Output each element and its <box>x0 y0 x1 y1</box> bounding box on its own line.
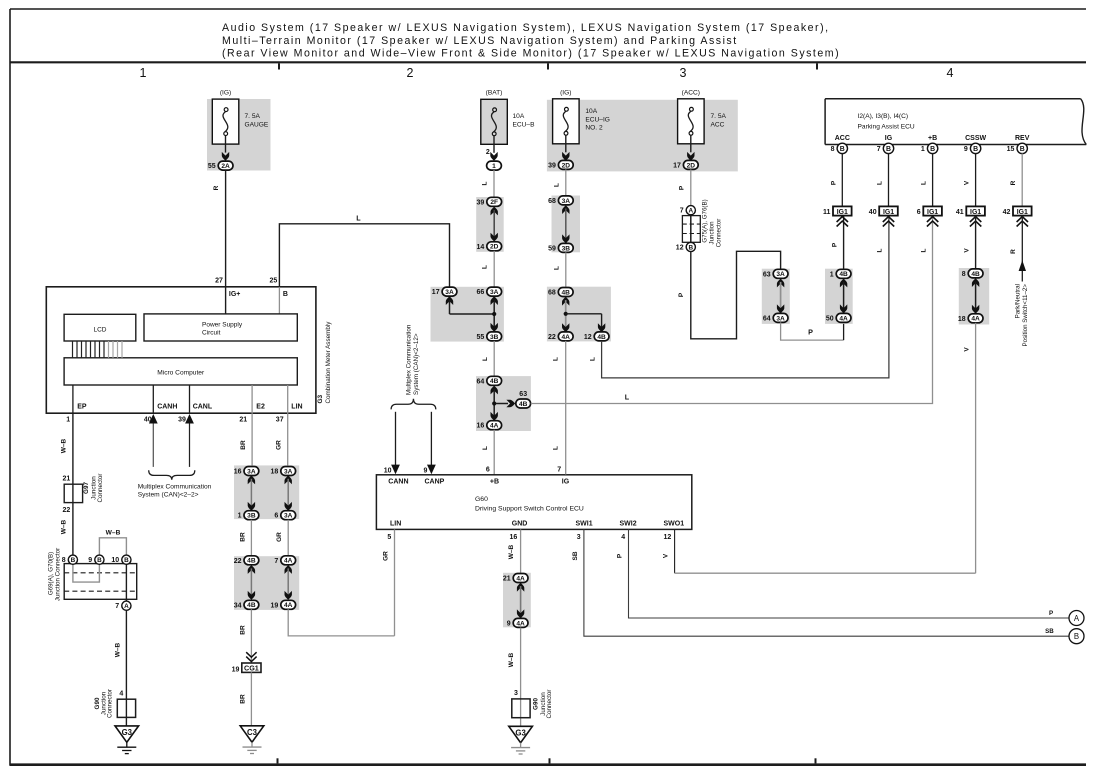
svg-text:41: 41 <box>956 209 964 216</box>
svg-text:CANL: CANL <box>193 404 213 411</box>
svg-text:22: 22 <box>63 507 71 514</box>
svg-text:6: 6 <box>486 466 490 473</box>
svg-text:R: R <box>1010 180 1017 185</box>
svg-text:P: P <box>678 292 685 297</box>
svg-text:4A: 4A <box>516 575 525 582</box>
svg-text:Combination Meter Assembly: Combination Meter Assembly <box>325 321 332 404</box>
svg-text:GR: GR <box>382 551 389 561</box>
svg-text:12: 12 <box>664 534 672 541</box>
svg-text:Parking Assist ECU: Parking Assist ECU <box>858 123 915 130</box>
svg-text:7: 7 <box>274 558 278 565</box>
svg-text:CSSW: CSSW <box>965 135 986 142</box>
svg-text:B: B <box>283 291 288 298</box>
svg-text:LCD: LCD <box>93 327 106 334</box>
svg-text:25: 25 <box>270 277 278 284</box>
svg-text:19: 19 <box>232 666 240 673</box>
svg-text:39: 39 <box>477 199 485 206</box>
svg-text:42: 42 <box>1003 209 1011 216</box>
svg-text:L: L <box>589 357 596 361</box>
svg-text:1: 1 <box>66 417 70 424</box>
svg-text:V: V <box>663 553 670 558</box>
svg-text:A: A <box>124 603 129 610</box>
svg-text:G3: G3 <box>515 729 526 738</box>
svg-text:55: 55 <box>208 163 216 170</box>
svg-text:A: A <box>688 208 693 215</box>
svg-text:17: 17 <box>673 162 681 169</box>
svg-text:17: 17 <box>432 289 440 296</box>
svg-text:P: P <box>831 242 838 247</box>
svg-text:2A: 2A <box>221 163 230 170</box>
svg-text:37: 37 <box>276 417 284 424</box>
svg-text:4B: 4B <box>490 378 499 385</box>
svg-text:15: 15 <box>1007 146 1015 153</box>
svg-text:16: 16 <box>477 423 485 430</box>
svg-text:4A: 4A <box>561 334 570 341</box>
svg-text:10A: 10A <box>585 108 597 115</box>
svg-text:ACC: ACC <box>835 135 850 142</box>
svg-text:2D: 2D <box>490 244 499 251</box>
svg-text:3A: 3A <box>284 468 293 475</box>
svg-text:6: 6 <box>917 209 921 216</box>
svg-text:Park/Neutral: Park/Neutral <box>1015 284 1022 318</box>
svg-text:4B: 4B <box>597 334 606 341</box>
svg-text:3A: 3A <box>562 198 571 205</box>
svg-text:W–B: W–B <box>61 438 68 453</box>
svg-text:(IG): (IG) <box>220 89 231 96</box>
svg-text:68: 68 <box>548 290 556 297</box>
svg-text:4B: 4B <box>839 271 848 278</box>
svg-text:L: L <box>877 181 884 185</box>
svg-text:1: 1 <box>140 66 147 80</box>
svg-text:4A: 4A <box>839 315 848 322</box>
svg-text:BR: BR <box>239 694 246 704</box>
svg-text:IG1: IG1 <box>970 209 981 216</box>
svg-text:E2: E2 <box>256 404 265 411</box>
svg-text:CG1: CG1 <box>244 664 259 673</box>
svg-text:B: B <box>124 557 129 564</box>
svg-text:G60: G60 <box>475 496 488 503</box>
svg-text:12: 12 <box>676 245 684 252</box>
svg-text:B: B <box>886 146 891 153</box>
svg-text:Driving Support Switch Control: Driving Support Switch Control ECU <box>475 506 584 513</box>
svg-text:SB: SB <box>1045 628 1054 635</box>
svg-text:4: 4 <box>947 66 954 80</box>
svg-text:3A: 3A <box>776 271 785 278</box>
svg-text:Connector: Connector <box>106 689 113 718</box>
svg-text:4B: 4B <box>971 271 980 278</box>
svg-text:IG1: IG1 <box>1017 209 1028 216</box>
svg-text:System (CAN)<2–2>: System (CAN)<2–2> <box>138 492 199 499</box>
svg-text:64: 64 <box>477 378 485 385</box>
svg-text:59: 59 <box>548 245 556 252</box>
svg-text:1: 1 <box>492 163 496 170</box>
svg-text:System (CAN)<2–12>: System (CAN)<2–12> <box>413 333 420 395</box>
svg-text:27: 27 <box>215 277 223 284</box>
svg-text:P: P <box>617 553 624 558</box>
svg-text:SWI2: SWI2 <box>620 521 637 528</box>
svg-text:L: L <box>553 446 560 450</box>
svg-text:LIN: LIN <box>291 404 302 411</box>
svg-text:55: 55 <box>477 334 485 341</box>
svg-text:SWO1: SWO1 <box>664 521 685 528</box>
svg-text:L: L <box>482 265 489 269</box>
svg-text:LIN: LIN <box>390 521 401 528</box>
svg-text:L: L <box>482 181 489 185</box>
svg-text:CANH: CANH <box>157 404 177 411</box>
svg-text:Multiplex Communication: Multiplex Communication <box>138 483 212 490</box>
svg-text:(BAT): (BAT) <box>486 89 503 96</box>
svg-text:14: 14 <box>477 244 485 251</box>
svg-text:Micro Computer: Micro Computer <box>157 370 205 377</box>
svg-text:G90: G90 <box>533 698 540 710</box>
svg-text:V: V <box>964 248 971 253</box>
svg-text:IG1: IG1 <box>837 209 848 216</box>
svg-text:10A: 10A <box>513 113 525 120</box>
svg-text:7. 5A: 7. 5A <box>711 113 727 120</box>
svg-text:7: 7 <box>557 466 561 473</box>
svg-text:Connector: Connector <box>546 689 553 718</box>
svg-text:7: 7 <box>680 208 684 215</box>
svg-text:IG+: IG+ <box>229 291 240 298</box>
svg-text:REV: REV <box>1015 135 1030 142</box>
svg-text:8: 8 <box>831 146 835 153</box>
svg-text:9: 9 <box>507 620 511 627</box>
svg-text:Audio System (17 Speaker w/ LE: Audio System (17 Speaker w/ LEXUS Naviga… <box>222 22 830 34</box>
svg-text:66: 66 <box>477 289 485 296</box>
svg-text:9: 9 <box>964 146 968 153</box>
svg-text:B: B <box>688 244 693 251</box>
svg-text:R: R <box>1010 249 1017 254</box>
svg-text:4B: 4B <box>519 401 528 408</box>
svg-text:BR: BR <box>239 532 246 542</box>
svg-text:4: 4 <box>119 690 123 697</box>
svg-text:11: 11 <box>823 209 831 216</box>
svg-text:+B: +B <box>490 478 499 485</box>
svg-text:4A: 4A <box>971 316 980 323</box>
svg-text:2: 2 <box>486 149 490 156</box>
svg-text:64: 64 <box>763 315 771 322</box>
svg-text:7: 7 <box>877 146 881 153</box>
svg-text:1: 1 <box>830 271 834 278</box>
svg-text:68: 68 <box>548 198 556 205</box>
svg-text:40: 40 <box>869 209 877 216</box>
svg-text:(Rear View Monitor and Wide–Vi: (Rear View Monitor and Wide–View Front &… <box>222 47 840 59</box>
svg-text:CANP: CANP <box>425 478 445 485</box>
svg-text:7. 5A: 7. 5A <box>245 113 261 120</box>
svg-text:L: L <box>482 446 489 450</box>
svg-text:2F: 2F <box>490 199 498 206</box>
svg-text:3B: 3B <box>247 513 256 520</box>
svg-text:Junction: Junction <box>709 221 716 245</box>
svg-text:SB: SB <box>572 551 579 560</box>
svg-text:4A: 4A <box>284 602 293 609</box>
svg-text:(ACC): (ACC) <box>682 89 700 96</box>
svg-text:3A: 3A <box>247 468 256 475</box>
svg-text:16: 16 <box>234 469 242 476</box>
svg-text:IG1: IG1 <box>883 209 894 216</box>
svg-text:ECU–B: ECU–B <box>513 121 536 128</box>
svg-text:63: 63 <box>763 271 771 278</box>
svg-text:63: 63 <box>519 391 527 398</box>
svg-text:21: 21 <box>503 576 511 583</box>
svg-text:B: B <box>97 557 102 564</box>
svg-text:BR: BR <box>239 625 246 635</box>
svg-text:10: 10 <box>111 557 119 564</box>
svg-text:L: L <box>356 214 361 223</box>
svg-text:1: 1 <box>238 513 242 520</box>
svg-text:B: B <box>840 146 845 153</box>
svg-text:2D: 2D <box>687 162 696 169</box>
svg-text:SWI1: SWI1 <box>576 521 593 528</box>
svg-text:B: B <box>71 557 76 564</box>
svg-text:ACC: ACC <box>711 121 725 128</box>
svg-text:B: B <box>1020 146 1025 153</box>
svg-text:P: P <box>678 185 685 190</box>
svg-text:Connector: Connector <box>97 473 104 502</box>
svg-text:B: B <box>930 146 935 153</box>
svg-text:(IG): (IG) <box>560 89 571 96</box>
svg-text:22: 22 <box>548 334 556 341</box>
svg-text:W–B: W–B <box>106 529 121 536</box>
svg-text:4B: 4B <box>247 558 256 565</box>
svg-text:L: L <box>877 248 884 252</box>
svg-text:4: 4 <box>621 534 625 541</box>
svg-text:L: L <box>921 248 928 252</box>
svg-text:G3: G3 <box>317 394 324 403</box>
svg-text:3A: 3A <box>490 289 499 296</box>
svg-text:3B: 3B <box>562 245 571 252</box>
svg-text:1: 1 <box>921 146 925 153</box>
svg-text:8: 8 <box>962 271 966 278</box>
svg-text:P: P <box>1049 610 1053 617</box>
svg-text:G69(A), G70(B): G69(A), G70(B) <box>48 552 55 595</box>
svg-text:18: 18 <box>271 469 279 476</box>
svg-text:21: 21 <box>239 417 247 424</box>
svg-text:50: 50 <box>826 315 834 322</box>
svg-text:3: 3 <box>680 66 687 80</box>
svg-text:W–B: W–B <box>114 642 121 657</box>
svg-text:IG: IG <box>562 478 570 485</box>
svg-text:W–B: W–B <box>61 519 68 534</box>
svg-text:NO. 2: NO. 2 <box>585 125 603 132</box>
svg-text:4B: 4B <box>561 289 570 296</box>
svg-text:3A: 3A <box>284 513 293 520</box>
svg-text:V: V <box>964 347 971 352</box>
svg-text:2: 2 <box>407 66 414 80</box>
svg-text:8: 8 <box>62 557 66 564</box>
svg-text:EP: EP <box>77 404 87 411</box>
svg-text:Junction Connector: Junction Connector <box>55 548 62 601</box>
svg-text:4B: 4B <box>247 602 256 609</box>
svg-text:4A: 4A <box>516 620 525 627</box>
svg-text:Position Switch<11–2>: Position Switch<11–2> <box>1022 284 1029 347</box>
svg-text:L: L <box>625 393 630 402</box>
svg-text:P: P <box>808 328 813 337</box>
svg-text:3: 3 <box>514 690 518 697</box>
svg-text:L: L <box>553 183 560 187</box>
svg-text:19: 19 <box>271 602 279 609</box>
svg-text:39: 39 <box>548 162 556 169</box>
svg-text:3A: 3A <box>445 289 454 296</box>
svg-text:W–B: W–B <box>508 544 515 559</box>
svg-text:L: L <box>482 357 489 361</box>
svg-text:Multi–Terrain Monitor (17 Spea: Multi–Terrain Monitor (17 Speaker w/ LEX… <box>222 35 738 47</box>
svg-text:3: 3 <box>577 534 581 541</box>
svg-text:L: L <box>921 181 928 185</box>
svg-text:G75(A), G76(B): G75(A), G76(B) <box>702 199 709 242</box>
svg-text:16: 16 <box>510 534 518 541</box>
svg-text:GR: GR <box>276 440 283 450</box>
svg-text:39: 39 <box>178 417 186 424</box>
svg-text:G97: G97 <box>83 482 90 494</box>
svg-text:Circuit: Circuit <box>202 329 221 336</box>
svg-text:GAUGE: GAUGE <box>245 121 269 128</box>
svg-text:22: 22 <box>234 558 242 565</box>
svg-text:GR: GR <box>276 532 283 542</box>
svg-text:ECU–IG: ECU–IG <box>585 116 610 123</box>
svg-text:BR: BR <box>240 440 247 450</box>
svg-text:V: V <box>964 180 971 185</box>
svg-text:I2(A), I3(B), I4(C): I2(A), I3(B), I4(C) <box>858 113 909 120</box>
svg-text:W–B: W–B <box>508 652 515 667</box>
svg-text:6: 6 <box>274 513 278 520</box>
svg-text:+B: +B <box>928 135 937 142</box>
svg-text:Connector: Connector <box>716 219 723 248</box>
svg-text:9: 9 <box>423 467 427 474</box>
svg-text:L: L <box>553 357 560 361</box>
svg-text:B: B <box>973 146 978 153</box>
svg-text:12: 12 <box>584 334 592 341</box>
svg-text:Power Supply: Power Supply <box>202 321 243 328</box>
svg-text:Multiplex Communication: Multiplex Communication <box>405 324 412 395</box>
svg-text:3B: 3B <box>490 334 499 341</box>
svg-text:A: A <box>1074 614 1080 623</box>
svg-text:7: 7 <box>115 603 119 610</box>
svg-text:IG: IG <box>885 135 893 142</box>
svg-text:CANN: CANN <box>388 478 408 485</box>
svg-text:10: 10 <box>384 467 392 474</box>
svg-text:34: 34 <box>234 602 242 609</box>
svg-text:3A: 3A <box>776 315 785 322</box>
svg-text:5: 5 <box>387 534 391 541</box>
svg-text:GND: GND <box>512 521 528 528</box>
svg-text:4A: 4A <box>490 423 499 430</box>
svg-text:C3: C3 <box>247 728 258 737</box>
svg-text:18: 18 <box>958 316 966 323</box>
svg-text:21: 21 <box>63 476 71 483</box>
svg-text:B: B <box>1074 632 1079 641</box>
svg-text:IG1: IG1 <box>927 209 938 216</box>
svg-text:L: L <box>553 266 560 270</box>
svg-text:R: R <box>213 185 220 190</box>
svg-text:2D: 2D <box>562 162 571 169</box>
svg-text:P: P <box>830 180 837 185</box>
svg-text:G3: G3 <box>122 728 133 737</box>
svg-text:4A: 4A <box>284 558 293 565</box>
svg-text:9: 9 <box>88 557 92 564</box>
